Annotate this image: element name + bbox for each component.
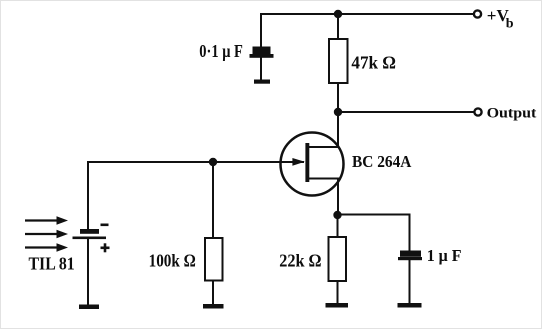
svg-text:1 μ F: 1 μ F (427, 246, 462, 265)
gate wire inside circle (281, 161, 303, 163)
ground below photocell (79, 305, 99, 310)
terminal Output (474, 108, 481, 115)
transistor Q1 internals (281, 133, 338, 196)
wire photocell bottom lead (87, 239, 89, 305)
wire left branch vertical (87, 162, 89, 230)
photocell TIL81 plate bottom (thin long) (73, 237, 107, 240)
wire C2 bottom lead (409, 260, 411, 304)
node junction at R1 top (334, 10, 342, 18)
svg-text:TIL 81: TIL 81 (29, 254, 75, 274)
wire R1 top lead (337, 14, 339, 39)
wire R3 bottom lead (337, 281, 339, 304)
capacitor C2 1uF plates (398, 251, 422, 261)
wire R1 bottom lead (337, 83, 339, 112)
ground below C2 (398, 303, 422, 308)
resistor R2 100k (205, 238, 223, 281)
svg-text:b: b (506, 17, 514, 32)
wire drain lead (337, 112, 339, 147)
drain vertical inside circle (337, 133, 339, 147)
plus sign (101, 243, 110, 252)
capacitor C1 0.1uF plates (250, 47, 274, 58)
source bar horizontal (309, 178, 338, 180)
photocell TIL81 plate top (thick short) (80, 229, 99, 234)
light arrow 3 (25, 246, 58, 248)
wire R3 top lead (337, 215, 339, 237)
wire gate line (88, 161, 303, 163)
wire to bypass capacitor (338, 215, 410, 252)
svg-text:BC 264A: BC 264A (352, 152, 411, 171)
svg-text:0·1 μ F: 0·1 μ F (199, 41, 243, 61)
wire C1 bottom lead (260, 57, 262, 80)
node junction at output (334, 108, 342, 116)
drain bar horizontal (309, 146, 338, 148)
wire R2 bottom lead (212, 280, 214, 305)
gate arrow head (292, 158, 304, 166)
transistor Q1 BC 264A body (281, 133, 344, 196)
wire top supply rail (261, 13, 474, 15)
resistor R3 22k (329, 237, 347, 281)
wire output line (338, 111, 474, 113)
svg-text:22k Ω: 22k Ω (279, 250, 321, 270)
resistor R1 47k (329, 39, 348, 83)
ground below R3 (326, 303, 349, 308)
wire source lead (337, 179, 339, 216)
svg-text:Output: Output (487, 105, 537, 121)
light arrow 2 (25, 233, 58, 235)
wire C1 top lead (260, 14, 262, 47)
svg-text:47k Ω: 47k Ω (351, 52, 396, 72)
light arrow 1 (25, 219, 58, 221)
gate bar (305, 143, 309, 182)
ground below R2 (203, 304, 224, 309)
node junction gate / R2 (209, 158, 217, 166)
node junction source / R3 / C2 (333, 211, 341, 219)
ground below C1 (254, 80, 270, 84)
source vertical inside circle (337, 179, 339, 197)
wire R2 top lead (212, 162, 214, 238)
minus sign (101, 224, 109, 227)
terminal +Vb (474, 10, 481, 17)
svg-text:100k Ω: 100k Ω (149, 251, 196, 271)
